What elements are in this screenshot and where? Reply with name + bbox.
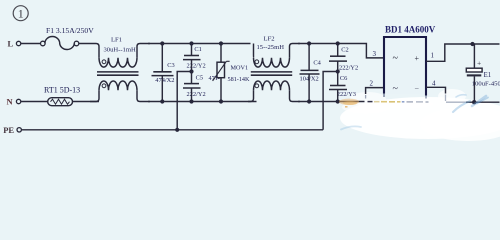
terminal L xyxy=(8,38,21,48)
watermark white blob bottom right xyxy=(340,89,500,141)
svg-text:471-: 471- xyxy=(209,75,220,82)
svg-text:474/X2: 474/X2 xyxy=(155,77,174,84)
inductor LF1 common-mode choke xyxy=(90,37,150,102)
fuse F1 xyxy=(41,26,95,50)
varistor MOV1 xyxy=(209,44,251,102)
svg-text:LF2: LF2 xyxy=(264,35,275,42)
wire fuse to LF1 xyxy=(79,44,99,58)
svg-text:C6: C6 xyxy=(340,75,347,82)
capacitor C6 xyxy=(329,75,356,101)
svg-text:~: ~ xyxy=(393,53,399,64)
svg-text:222/Y2: 222/Y2 xyxy=(187,63,206,70)
top winding xyxy=(99,58,137,67)
svg-text:BD1 4A600V: BD1 4A600V xyxy=(385,25,436,35)
svg-text:30uH--1mH: 30uH--1mH xyxy=(104,46,136,53)
svg-text:222/Y2: 222/Y2 xyxy=(339,64,358,71)
node C3 top xyxy=(160,41,164,45)
svg-text:C4: C4 xyxy=(313,60,321,67)
svg-text:C3: C3 xyxy=(167,62,174,69)
bridge rectifier BD1 xyxy=(384,25,436,99)
svg-text:1: 1 xyxy=(431,52,435,60)
svg-text:2: 2 xyxy=(370,80,374,88)
svg-text:3: 3 xyxy=(373,50,377,58)
svg-text:C1: C1 xyxy=(194,46,201,53)
node C6 bottom xyxy=(336,99,340,103)
node C2 top xyxy=(336,41,340,45)
node C2-C6 midpoint xyxy=(336,69,340,73)
wire RT1 to LF1 xyxy=(73,101,100,103)
node C5 bottom xyxy=(189,99,193,103)
svg-text:100uF-450V: 100uF-450V xyxy=(472,80,500,87)
wire L to fuse xyxy=(21,43,41,45)
capacitor C5 xyxy=(183,75,206,102)
wire PE tap left xyxy=(177,72,191,130)
wire N to RT1 xyxy=(21,101,48,103)
L rail LF2 to bridge with step down xyxy=(298,44,384,58)
svg-text:L: L xyxy=(8,38,14,48)
L rail LF1 to LF2 xyxy=(148,43,251,45)
capacitor E1 electrolytic xyxy=(466,44,500,102)
node C3 bottom xyxy=(160,99,164,103)
top winding xyxy=(254,58,290,67)
faded pin4 riser and bottom rail xyxy=(445,95,447,102)
N rail LF1 to LF2 xyxy=(148,101,257,103)
svg-text:E1: E1 xyxy=(484,72,492,79)
svg-text:581-14K: 581-14K xyxy=(228,76,251,83)
svg-text:+: + xyxy=(477,59,481,68)
node C4 top xyxy=(307,41,311,45)
leads xyxy=(137,44,150,58)
svg-text:+: + xyxy=(415,54,420,63)
svg-text:~: ~ xyxy=(393,84,399,95)
capacitor C1 xyxy=(183,44,206,84)
core xyxy=(251,71,292,73)
watermark blue scribbles xyxy=(341,95,488,130)
svg-text:C5: C5 xyxy=(196,75,203,82)
svg-text:F1 3.15A/250V: F1 3.15A/250V xyxy=(46,26,94,35)
terminal N xyxy=(7,97,21,107)
faded N rail dashes under watermark xyxy=(366,95,429,102)
orange watermark smear on N rail xyxy=(339,99,359,107)
svg-text:N: N xyxy=(7,97,14,107)
svg-text:222/Y3: 222/Y3 xyxy=(337,91,356,98)
thermistor RT1 xyxy=(44,86,80,106)
capacitor C4 xyxy=(300,44,322,102)
node MOV1 top xyxy=(219,41,223,45)
N rail LF2 rightward (solid part) xyxy=(298,101,365,103)
wire bridge pin 4 to bottom rail xyxy=(426,87,446,93)
capacitor C2 xyxy=(329,44,358,86)
svg-text:−: − xyxy=(415,84,420,93)
svg-text:PE: PE xyxy=(3,125,14,135)
node C1-C5 midpoint xyxy=(189,69,193,73)
terminal PE xyxy=(3,125,21,135)
svg-text:4: 4 xyxy=(432,80,436,88)
svg-text:222/Y2: 222/Y2 xyxy=(187,91,206,98)
node E1 bottom xyxy=(472,100,476,104)
svg-text:1: 1 xyxy=(18,7,24,21)
bottom winding xyxy=(254,81,290,90)
svg-text:C2: C2 xyxy=(341,46,348,53)
wire PE tap right xyxy=(323,72,338,130)
capacitor C3 xyxy=(152,44,175,102)
node PE tap xyxy=(175,128,179,132)
node C1 top xyxy=(189,41,193,45)
wire bridge pin 1 to output rail xyxy=(426,44,500,61)
wire bottom rail to edge xyxy=(466,101,500,103)
wire PE line xyxy=(21,129,323,131)
node MOV1 bottom xyxy=(219,99,223,103)
wire N step to bridge pin 2 xyxy=(366,88,384,94)
circled figure number 1 xyxy=(13,6,28,21)
bottom winding xyxy=(99,81,137,90)
node C4 bottom xyxy=(307,99,311,103)
svg-text:15--25mH: 15--25mH xyxy=(257,44,285,51)
core xyxy=(97,71,139,73)
svg-text:RT1 5D-13: RT1 5D-13 xyxy=(44,86,80,95)
node E1 top xyxy=(470,42,474,46)
svg-text:LF1: LF1 xyxy=(111,37,122,44)
svg-text:MOV1: MOV1 xyxy=(231,64,249,71)
inductor LF2 common-mode choke xyxy=(248,35,300,101)
leads xyxy=(290,44,301,58)
